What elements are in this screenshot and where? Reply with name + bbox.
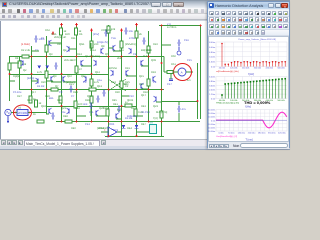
resistor R18: [22, 55, 29, 58]
resistor R23: [160, 111, 163, 118]
svg-text:R14: R14: [91, 49, 96, 52]
resistor R12: [29, 96, 36, 103]
wire rail-c: [31, 46, 33, 101]
resistor R21: [65, 120, 72, 123]
svg-text:f [Hz]: f [Hz]: [245, 104, 251, 108]
annotation ellipse E2: [174, 63, 192, 80]
load box SPK1: [150, 121, 157, 133]
wire stub-3: [81, 65, 91, 67]
svg-text:R24: R24: [111, 81, 116, 84]
svg-text:47: 47: [79, 68, 82, 71]
resistor R25: [120, 81, 127, 88]
svg-text:-: -: [104, 133, 105, 137]
node J5: [91, 55, 93, 57]
transistor Q7: [36, 78, 39, 84]
svg-text:Q8: Q8: [101, 45, 105, 48]
svg-text:-30.00m: -30.00m: [208, 131, 215, 133]
svg-text:R38: R38: [57, 99, 62, 102]
harmonics x-axis labels: [219, 67, 286, 69]
svg-text:0.00s: 0.00s: [219, 132, 224, 134]
node J12: [61, 73, 63, 75]
transistor Q21: [67, 108, 70, 114]
wire rail-l: [161, 25, 163, 136]
node J25: [91, 120, 93, 122]
ammeter AM1: [173, 68, 193, 76]
svg-text:A: A: [181, 70, 183, 74]
svg-text:Vout[SemiKroll][c], [V]: Vout[SemiKroll][c], [V]: [216, 134, 238, 137]
svg-text:R20: R20: [41, 81, 46, 84]
svg-text:140.00u: 140.00u: [238, 132, 246, 134]
node J20: [161, 88, 163, 90]
svg-text:Q2: Q2: [23, 69, 27, 72]
wire stub-7: [51, 81, 61, 83]
harmonics plot grid: [216, 42, 287, 67]
svg-text:220.00k: 220.00k: [242, 67, 250, 69]
svg-text:T [ms]: T [ms]: [245, 137, 252, 141]
svg-text:R2 2.2k: R2 2.2k: [21, 49, 31, 52]
toolbar row 2: [0, 14, 290, 20]
svg-text:D3 D4: D3 D4: [125, 117, 133, 120]
svg-text:Q23: Q23: [153, 105, 158, 108]
svg-text:MJL[4.7k]: MJL[4.7k]: [156, 111, 168, 114]
svg-text:20.00k: 20.00k: [219, 67, 226, 69]
node J23: [61, 120, 63, 122]
svg-text:R40: R40: [71, 127, 76, 130]
sheet tab: [24, 140, 100, 146]
svg-text:R52: R52: [45, 29, 50, 32]
svg-text:Q13: Q13: [97, 85, 102, 88]
node J9: [148, 55, 150, 57]
node J22: [121, 105, 123, 107]
svg-text:VCC 35V: VCC 35V: [101, 29, 112, 32]
svg-text:2k2: 2k2: [117, 57, 122, 60]
capacitor C8: [117, 105, 120, 112]
svg-text:-20.00m: -20.00m: [208, 127, 215, 129]
node J4: [76, 55, 78, 57]
svg-text:R22: R22: [153, 43, 158, 46]
svg-text:30.00m: 30.00m: [208, 109, 215, 111]
svg-text:500.00k: 500.00k: [277, 67, 285, 69]
svg-text:2N5[1k]uC: 2N5[1k]uC: [54, 36, 66, 39]
node J29: [148, 120, 150, 122]
svg-text:R28: R28: [45, 95, 50, 98]
capacitor C2: [104, 29, 107, 36]
svg-text:f [Hz]: f [Hz]: [248, 72, 254, 76]
transistor Q5: [113, 45, 116, 51]
thd x-axis labels: [219, 100, 286, 102]
wire stub-21: [101, 131, 108, 133]
wire stub-20: [136, 131, 149, 133]
wire meter-branch: [164, 71, 167, 73]
timewave plot grid: [216, 109, 287, 131]
node J1: [31, 55, 33, 57]
svg-text:2k: 2k: [139, 33, 142, 36]
HDA toolbar row at 27.5: [208, 30, 289, 37]
svg-text:10.00m: 10.00m: [208, 116, 215, 118]
wire stub-12: [46, 113, 49, 115]
svg-text:[2N5401]: [2N5401]: [125, 43, 136, 46]
svg-text:R[4]k: R[4]k: [13, 75, 20, 78]
op-amp U2: [104, 127, 117, 137]
svg-text:C2: C2: [35, 49, 39, 52]
svg-text:R25: R25: [125, 81, 130, 84]
wire stub-2: [69, 48, 76, 50]
opamp U1 LTC2057: [17, 106, 29, 115]
node J35: [136, 135, 138, 137]
toolbar row 1: [0, 8, 290, 14]
svg-text:4.7Ohm: 4.7Ohm: [167, 26, 176, 29]
svg-text:D1 D2: D1 D2: [37, 85, 45, 88]
svg-text:Q22: Q22: [117, 109, 122, 112]
diode D4: [46, 65, 50, 68]
svg-text:R34: R34: [75, 107, 80, 110]
node J31: [161, 24, 163, 26]
resistor R30: [147, 79, 150, 86]
svg-text:R37: R37: [131, 107, 136, 110]
node J27: [121, 120, 123, 122]
Harmonic Distortion Analysis window: [207, 1, 290, 148]
wire stub-5: [141, 65, 148, 67]
transistor Q6: [51, 76, 54, 82]
svg-text:10n[4.7k]: 10n[4.7k]: [97, 41, 108, 44]
svg-text:U1: U1: [18, 106, 22, 109]
capacitor C13: [142, 37, 145, 44]
wire stub-22: [178, 101, 180, 105]
window buttons: [151, 2, 161, 7]
svg-text:R18: R18: [147, 49, 152, 52]
svg-text:R48: R48: [63, 115, 68, 118]
resistor R29: [37, 120, 44, 123]
svg-text:4.7k: 4.7k: [37, 71, 43, 74]
annotation ellipse E1: [14, 105, 32, 120]
svg-text:70.00u: 70.00u: [228, 132, 235, 134]
svg-text:0R22: 0R22: [127, 99, 134, 102]
resistor R5: [90, 41, 99, 48]
svg-text:OPA: OPA: [109, 123, 115, 126]
node J34: [108, 135, 110, 137]
HDA toolbar row at 21: [208, 23, 289, 30]
svg-text:C15: C15: [187, 59, 192, 62]
transistor Q2: [67, 46, 70, 52]
zero axis (blue): [216, 119, 263, 121]
svg-text:1.60m: 1.60m: [209, 61, 215, 63]
wire stub-32: [90, 43, 92, 51]
svg-text:Q21: Q21: [61, 107, 66, 110]
svg-text:120.00k: 120.00k: [230, 67, 238, 69]
wire rail-e: [61, 25, 63, 122]
svg-text:R42: R42: [99, 127, 104, 130]
wire stub-8: [108, 47, 113, 49]
resistor R13: [59, 96, 62, 103]
bottom window edge: [0, 146, 290, 151]
wire stub-34: [121, 95, 129, 97]
wire bus-6: [105, 135, 164, 137]
svg-text:R45: R45: [112, 99, 117, 102]
wire stub-10: [156, 101, 161, 103]
diode D2: [135, 125, 139, 129]
svg-text:R44: R44: [127, 127, 132, 130]
svg-text:Q09: Q09: [151, 59, 156, 62]
svg-text:3n3: 3n3: [83, 103, 88, 106]
transistor Q13: [49, 108, 52, 114]
node J14: [31, 88, 33, 90]
transistor Q4: [94, 60, 97, 66]
svg-text:R33: R33: [151, 71, 156, 74]
svg-text:R11: R11: [71, 37, 76, 40]
svg-text:cd[Coefficients][c], [Hz]: cd[Coefficients][c], [Hz]: [216, 69, 239, 72]
wire bus-3: [19, 88, 164, 90]
node J11: [31, 73, 33, 75]
wire stub-35: [76, 115, 86, 117]
svg-text:BC556: BC556: [109, 67, 117, 70]
svg-text:420.00k: 420.00k: [266, 67, 274, 69]
svg-text:8.00m: 8.00m: [209, 42, 215, 44]
power arrow P6: [120, 28, 123, 32]
node J19: [148, 88, 150, 90]
resistor R27: [75, 66, 82, 73]
wire stub-6: [31, 80, 38, 82]
wire diag-2: [108, 79, 126, 91]
wire diag-1: [108, 79, 126, 91]
capacitor C5: [102, 89, 105, 96]
svg-text:0.5A: 0.5A: [51, 33, 57, 36]
resistor R17: [90, 96, 93, 103]
resistor R14: [74, 101, 83, 108]
wire meter-vert: [170, 74, 172, 79]
svg-text:1k: 1k: [33, 113, 36, 116]
HDA toolbar row at 8: [208, 10, 289, 17]
wire stub-11: [96, 115, 108, 117]
resistor R26: [45, 71, 48, 78]
svg-text:47u: 47u: [182, 108, 187, 111]
svg-text:OP2: OP2: [113, 129, 119, 132]
svg-text:0.00: 0.00: [211, 66, 216, 68]
wire stub-17: [163, 56, 165, 72]
svg-text:R39: R39: [85, 99, 90, 102]
node J6: [108, 55, 110, 57]
svg-text:R50: R50: [171, 55, 176, 58]
svg-text:Q4: Q4: [63, 49, 67, 52]
svg-text:3.20m: 3.20m: [209, 56, 215, 58]
svg-text:R32: R32: [143, 91, 148, 94]
power arrow P2: [60, 22, 63, 26]
resistor R16: [134, 109, 144, 116]
svg-text:4.80m: 4.80m: [209, 51, 215, 53]
transistor Q17: [84, 76, 87, 82]
timewave y-axis labels: [207, 109, 216, 133]
svg-text:THD[cumulative][c], [%]: THD[cumulative][c], [%]: [216, 101, 239, 104]
node J36: [161, 62, 163, 64]
transistor Q11: [126, 70, 129, 76]
svg-text:R6: R6: [79, 33, 83, 36]
node J3: [61, 55, 63, 57]
transistor Q15: [141, 83, 144, 89]
bottom tab bar: [0, 139, 207, 146]
wire rail-f: [76, 25, 78, 122]
resistor R9: [147, 46, 150, 53]
capacitor C6: [177, 105, 186, 112]
svg-text:QG1: QG1: [79, 43, 85, 46]
resistor R2: [75, 28, 82, 35]
svg-text:6.40m: 6.40m: [209, 46, 215, 48]
svg-text:1m: 1m: [187, 79, 191, 82]
resistor R22: [35, 100, 42, 107]
resistor R15: [106, 109, 109, 116]
svg-text:Q16: Q16: [139, 83, 144, 86]
capacitor C10 electrolytic: [177, 47, 181, 55]
schematic canvas: [0, 21, 207, 140]
svg-text:350.00u: 350.00u: [268, 132, 276, 134]
svg-text:C5 10u: C5 10u: [13, 91, 22, 94]
svg-text:R21: R21: [69, 83, 74, 86]
node J26: [108, 120, 110, 122]
wire bus-top-right: [159, 24, 200, 26]
capacitor C7: [89, 102, 92, 109]
wire bus-1: [9, 55, 164, 57]
transistor Q20: [153, 76, 156, 82]
wire stub-24: [171, 120, 200, 122]
svg-text:R29: R29: [73, 91, 78, 94]
svg-text:10u: 10u: [129, 30, 134, 33]
svg-text:R47: R47: [141, 123, 146, 126]
svg-text:420.00u: 420.00u: [278, 132, 286, 134]
wire stub-33: [46, 80, 53, 82]
HDA bottom tab row: [208, 142, 289, 149]
node J7: [121, 55, 123, 57]
title bar app icon: [2, 2, 7, 7]
node J33: [197, 100, 199, 102]
harmonic stems (red): [221, 42, 286, 66]
node J2: [46, 55, 48, 57]
capacitor C3: [124, 27, 133, 34]
svg-text:C11: C11: [89, 111, 94, 114]
svg-text:Q3: Q3: [49, 53, 53, 56]
svg-text:20.00m: 20.00m: [208, 113, 215, 115]
svg-text:Q11: Q11: [81, 75, 86, 78]
svg-text:280.00u: 280.00u: [258, 132, 266, 134]
resistor R28: [89, 88, 96, 91]
svg-text:Q17: Q17: [141, 94, 146, 97]
svg-text:Q7: Q7: [55, 85, 59, 88]
transistor Q16: [21, 60, 24, 66]
wire stub-14: [63, 81, 76, 83]
svg-text:4.80m: 4.80m: [209, 80, 215, 82]
svg-text:Q5: Q5: [105, 53, 109, 56]
main window title bar: [0, 0, 290, 8]
svg-text:210.00u: 210.00u: [248, 132, 256, 134]
wire stub-31: [31, 50, 39, 52]
wire bus-5: [56, 120, 200, 122]
svg-text:22u: 22u: [61, 111, 66, 114]
HDA chart area: [208, 36, 289, 142]
resistor R6: [107, 26, 116, 33]
diode D3: [38, 65, 42, 68]
svg-text:Q17: Q17: [31, 91, 36, 94]
node J17: [108, 88, 110, 90]
svg-text:C17: C17: [167, 83, 172, 86]
power arrow P4: [135, 22, 138, 26]
svg-text:6.00m: 6.00m: [209, 76, 215, 78]
resistor R10: [8, 63, 11, 70]
svg-text:C1: C1: [41, 37, 45, 40]
svg-text:500.00k: 500.00k: [277, 100, 285, 102]
transistor Q18: [101, 48, 104, 54]
svg-text:0.00: 0.00: [211, 98, 216, 100]
svg-text:C6: C6: [83, 81, 87, 84]
svg-text:LTC2057: LTC2057: [18, 112, 29, 115]
svg-text:C16: C16: [184, 39, 189, 42]
resistor R11: [18, 61, 27, 68]
power arrow P1: [52, 31, 55, 35]
wire rail-g: [91, 31, 93, 122]
transistor Q14: [96, 110, 99, 116]
svg-text:320.00k: 320.00k: [254, 67, 262, 69]
svg-text:MJE: MJE: [143, 55, 148, 58]
wire stub-19: [117, 131, 121, 133]
svg-text:1R0: 1R0: [65, 33, 70, 36]
svg-text:R10: R10: [57, 43, 62, 46]
HDA title bar: [208, 2, 289, 9]
capacitor C1: [34, 35, 45, 42]
svg-text:X1: X1: [125, 85, 129, 88]
wire rail-b: [19, 56, 21, 90]
node J30: [161, 120, 163, 122]
harmonics y-axis labels: [209, 42, 216, 69]
node J21: [61, 105, 63, 107]
wire stub-15: [141, 88, 148, 90]
svg-text:[220p]: [220p]: [27, 77, 34, 80]
resistor R19: [51, 88, 58, 91]
wire stub-4: [113, 50, 121, 52]
resistor R24: [167, 70, 173, 73]
wire stub-18: [161, 44, 171, 46]
svg-text:1.20m: 1.20m: [209, 94, 215, 96]
node J8: [136, 55, 138, 57]
thd plot grid: [216, 76, 287, 98]
wire stub-9: [126, 75, 136, 77]
svg-text:C7: C7: [71, 95, 75, 98]
svg-text:0.00: 0.00: [211, 120, 216, 122]
svg-text:C12: C12: [145, 111, 150, 114]
HDA window buttons: [268, 3, 274, 8]
wire stub-1: [49, 42, 61, 44]
capacitor C14: [51, 112, 54, 119]
svg-text:2.40m: 2.40m: [209, 89, 215, 91]
transistor Q3: [81, 60, 84, 66]
wire input-to-U1: [11, 111, 17, 113]
wire rail-m: [197, 63, 199, 119]
diode D1: [122, 125, 126, 129]
svg-text:R35: R35: [103, 107, 108, 110]
svg-text:R51: R51: [171, 63, 176, 66]
svg-text:470u: 470u: [129, 37, 135, 40]
capacitor C12: [54, 62, 57, 69]
transistor Q22: [116, 113, 119, 119]
source VG1: [5, 109, 11, 123]
title bar text: [9, 2, 149, 6]
output waveform (magenta): [216, 112, 287, 128]
node J16: [76, 88, 78, 90]
node J32: [200, 24, 202, 26]
transistor Q8: [63, 76, 66, 82]
wire rail-d: [46, 36, 48, 114]
node J24: [76, 120, 78, 122]
svg-text:Q15: Q15: [139, 75, 144, 78]
svg-text:C10: C10: [129, 95, 134, 98]
svg-text:T5A: T5A: [111, 37, 116, 40]
svg-text:R41: R41: [113, 103, 118, 106]
wire stub-13: [9, 62, 19, 64]
